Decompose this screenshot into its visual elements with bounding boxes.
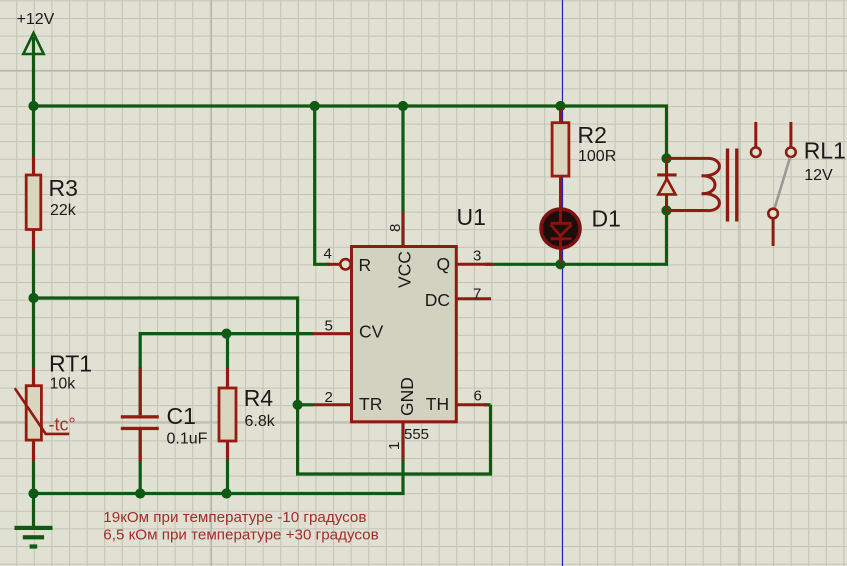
svg-text:R4: R4 (244, 385, 274, 411)
svg-text:4: 4 (324, 246, 332, 263)
svg-text:-tc°: -tc° (49, 415, 76, 435)
svg-text:TR: TR (359, 394, 382, 414)
svg-text:2: 2 (325, 389, 333, 406)
svg-text:555: 555 (404, 426, 429, 443)
svg-text:10k: 10k (50, 376, 77, 393)
svg-text:5: 5 (325, 318, 333, 335)
svg-text:GND: GND (397, 377, 417, 416)
svg-text:Q: Q (437, 254, 451, 274)
svg-text:R3: R3 (49, 175, 78, 201)
svg-text:6,5 кОм при температуре +30 гр: 6,5 кОм при температуре +30 градусов (103, 527, 378, 544)
svg-text:U1: U1 (457, 204, 486, 230)
svg-text:RT1: RT1 (49, 351, 92, 377)
svg-text:1: 1 (386, 442, 403, 450)
svg-text:VCC: VCC (395, 251, 415, 288)
svg-text:22k: 22k (50, 202, 77, 219)
svg-text:19кОм при температуре -10 град: 19кОм при температуре -10 градусов (103, 509, 366, 526)
svg-text:12V: 12V (804, 167, 833, 184)
svg-text:C1: C1 (167, 403, 196, 429)
svg-text:+12V: +12V (17, 11, 55, 28)
svg-text:DC: DC (425, 290, 450, 310)
svg-text:3: 3 (473, 248, 481, 265)
svg-text:RL1: RL1 (804, 138, 846, 164)
svg-text:6.8k: 6.8k (245, 413, 276, 430)
svg-text:100R: 100R (578, 148, 616, 165)
svg-text:6: 6 (474, 388, 482, 405)
svg-text:CV: CV (359, 322, 384, 342)
svg-text:D1: D1 (592, 206, 621, 232)
svg-text:R: R (359, 255, 372, 275)
svg-text:8: 8 (387, 224, 404, 232)
svg-text:R2: R2 (578, 122, 607, 148)
svg-text:0.1uF: 0.1uF (167, 431, 208, 448)
svg-text:7: 7 (473, 286, 481, 303)
svg-text:TH: TH (426, 394, 449, 414)
